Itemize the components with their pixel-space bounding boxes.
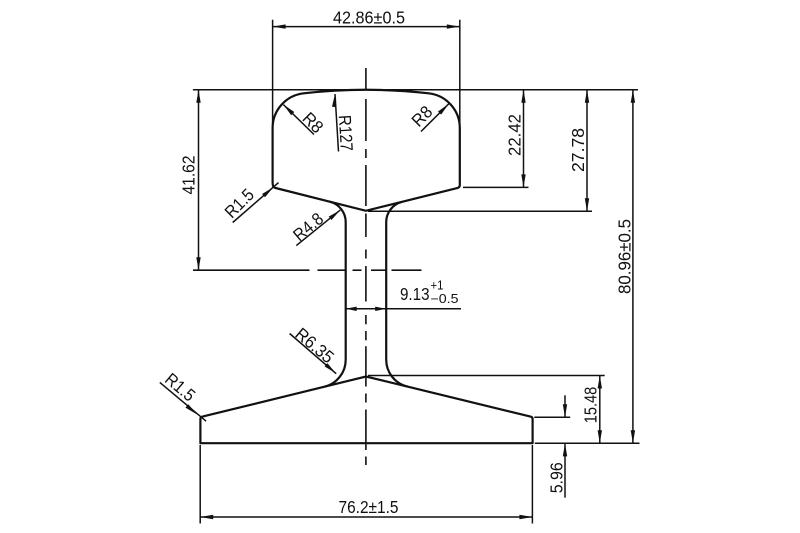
svg-text:42.86±0.5: 42.86±0.5: [333, 8, 405, 28]
svg-text:41.62: 41.62: [179, 156, 199, 195]
svg-text:R127: R127: [335, 114, 357, 151]
svg-text:27.78: 27.78: [568, 128, 588, 172]
radius label R4.8 head-web fillet: [296, 210, 340, 246]
radius label R6.35 web-foot fillet: [290, 334, 337, 374]
head underside slope lines meeting at web apex: [330, 202, 402, 211]
dimension 22.42: [463, 90, 529, 188]
radius label R1.5 foot tip: [160, 382, 206, 421]
radius label R8 right: [421, 104, 449, 132]
rail profile outline: [200, 90, 532, 443]
svg-text:9.13: 9.13: [400, 284, 430, 304]
svg-text:76.2±1.5: 76.2±1.5: [339, 497, 399, 517]
dimension 15.48 foot height: [368, 376, 605, 444]
dimension 9.13 +1/-0.5 web thickness: [346, 308, 461, 310]
dimension 42.86±0.5 head width: [273, 20, 460, 124]
dimension 27.78: [368, 90, 592, 212]
dimension 41.62 head height: [198, 90, 200, 270]
foot bottom extension line: [535, 442, 640, 444]
svg-text:5.96: 5.96: [546, 462, 566, 493]
radius label R127 crown: [335, 94, 339, 152]
dimension 76.2±1.5 foot width: [200, 445, 532, 524]
top reference extension line: [193, 89, 638, 91]
svg-text:15.48: 15.48: [580, 387, 600, 424]
svg-text:80.96±0.5: 80.96±0.5: [615, 219, 635, 294]
foot top slope lines meeting at web apex: [325, 377, 408, 387]
radius label R8 left: [283, 105, 314, 135]
horizontal axis reference line: [193, 269, 310, 271]
radius label R1.5 head corner: [233, 183, 279, 223]
vertical centerline: [365, 68, 367, 91]
dimension 80.96±0.5 total height: [632, 90, 634, 444]
dimension 5.96 foot edge thickness: [534, 395, 570, 497]
svg-text:−0.5: −0.5: [431, 292, 459, 306]
svg-text:22.42: 22.42: [504, 114, 524, 156]
svg-text:+1: +1: [431, 279, 444, 293]
